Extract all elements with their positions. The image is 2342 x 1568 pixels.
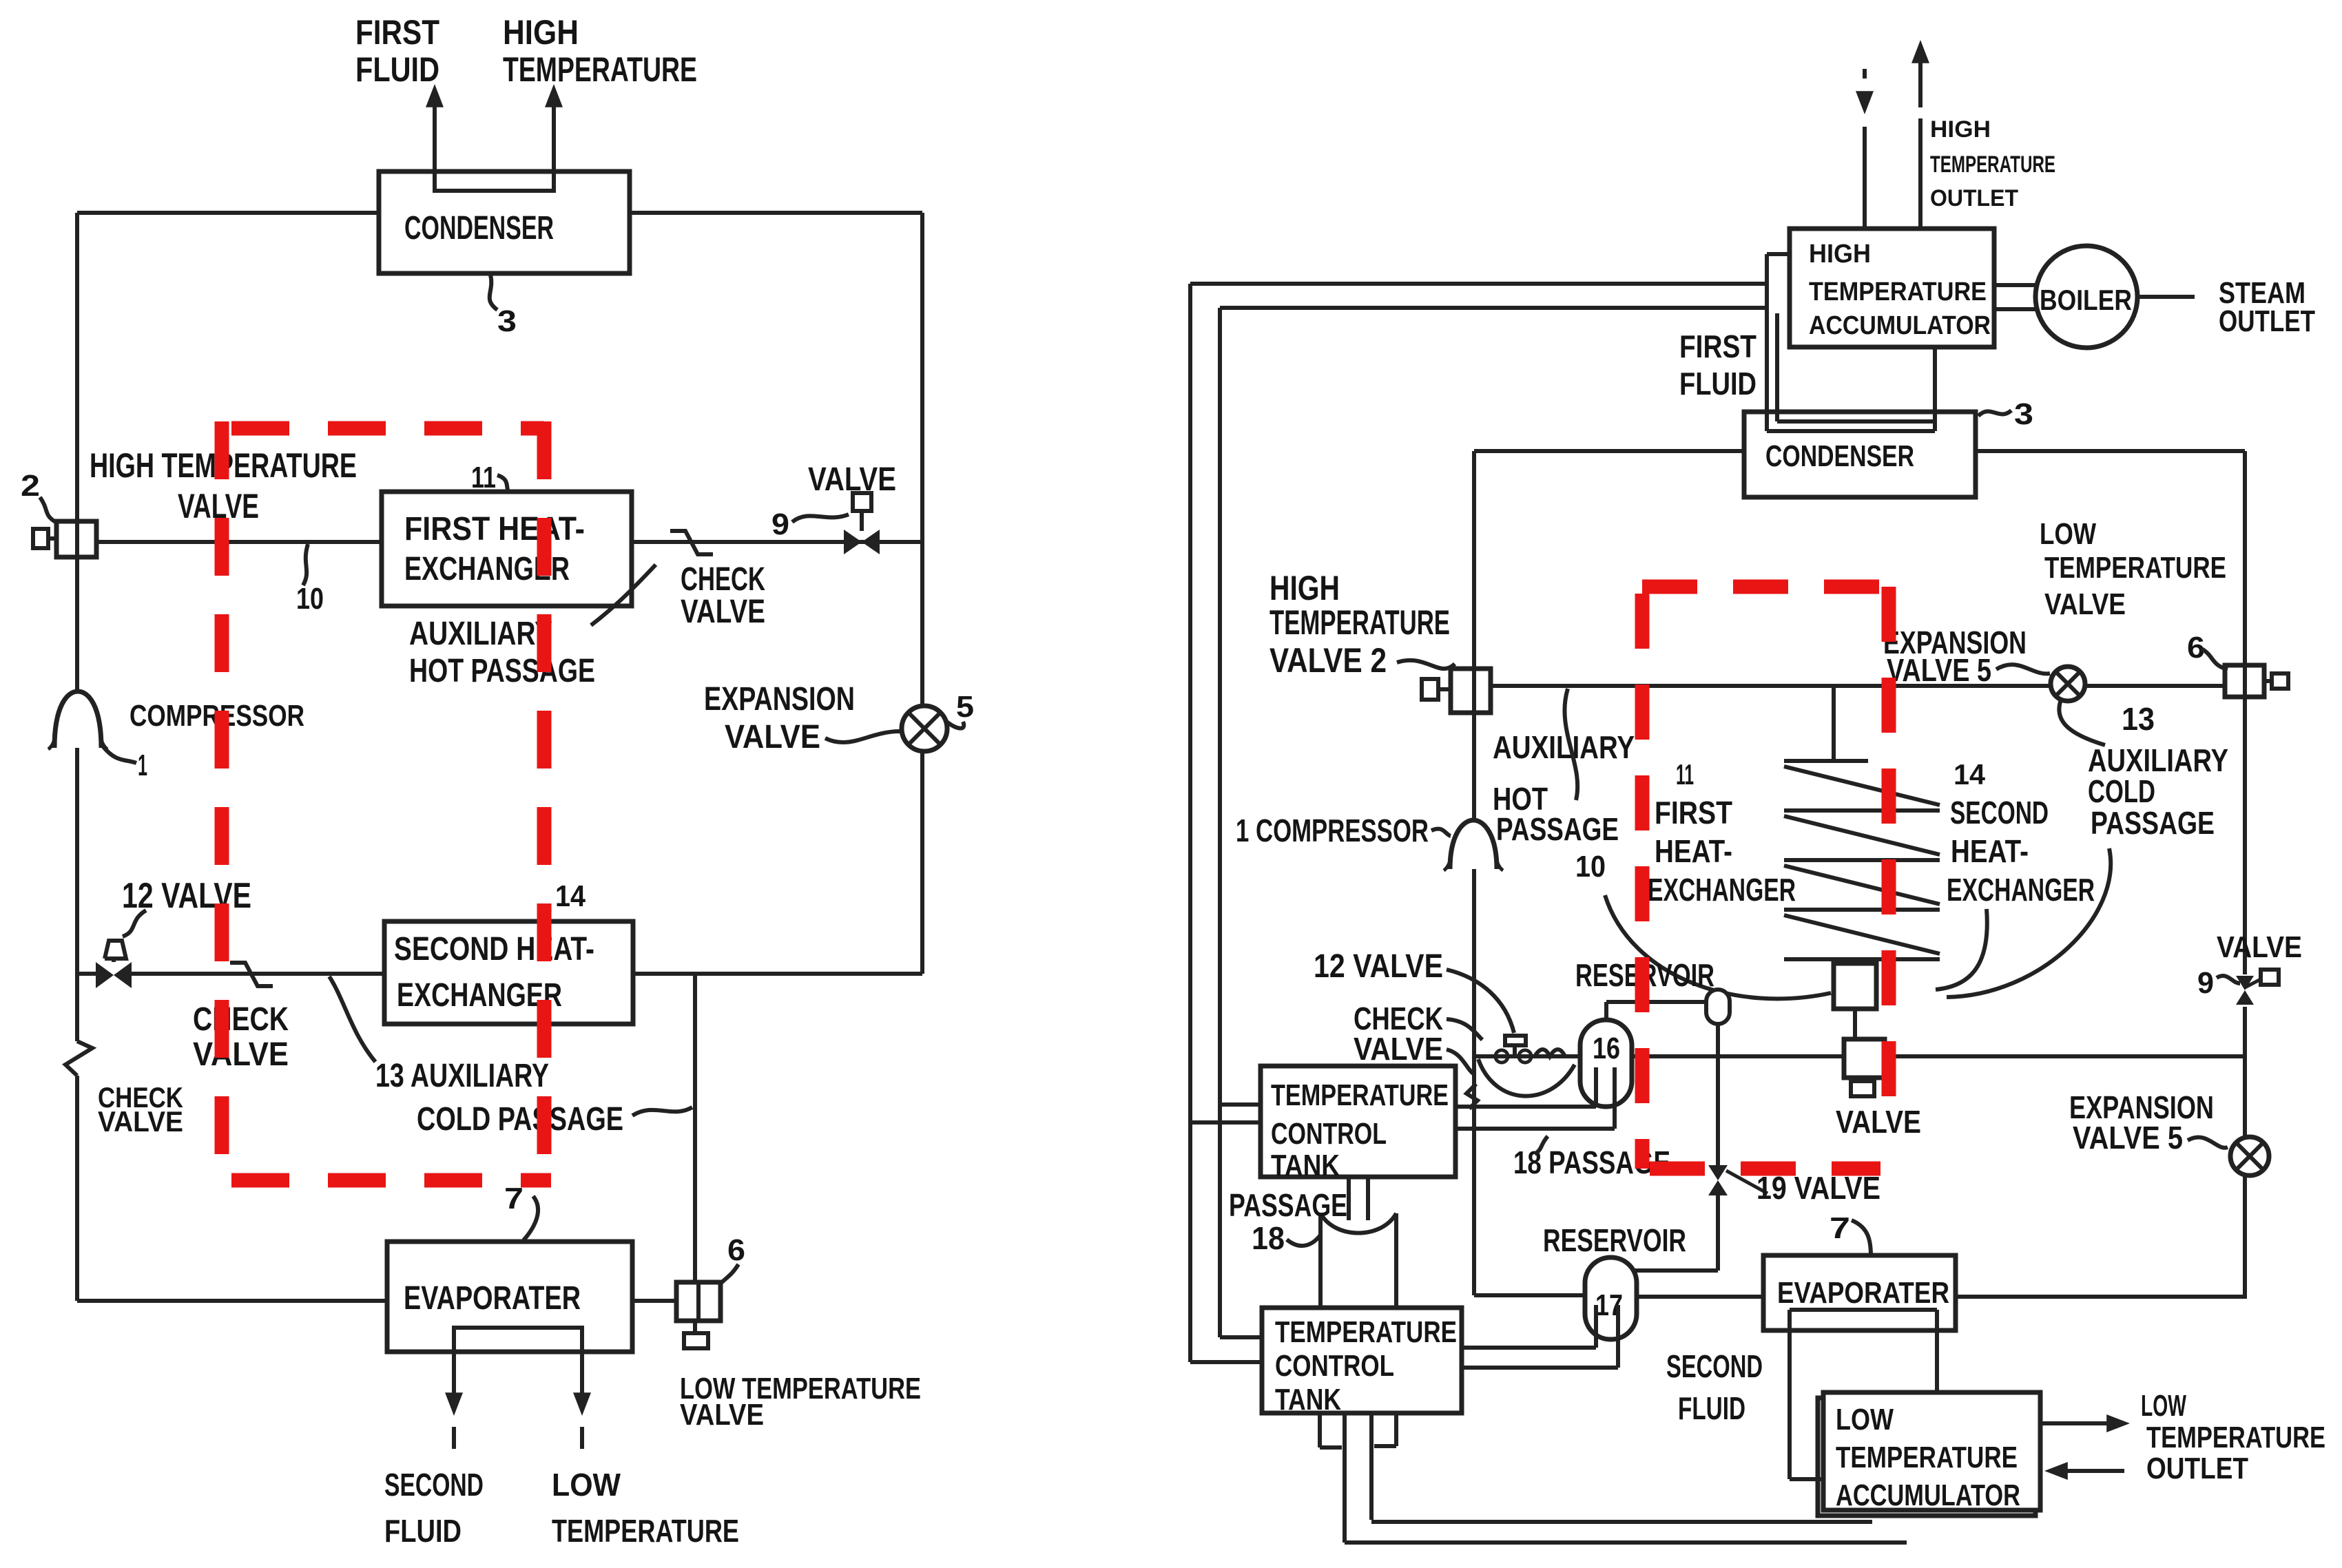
- leader squiggle valve 9: [2217, 976, 2240, 983]
- leader squiggle 18 passage: [1535, 1136, 1548, 1154]
- passage 18 bowl: [1320, 1213, 1396, 1233]
- valve lower stub box: [1851, 1081, 1874, 1096]
- svg-text:9: 9: [771, 508, 789, 541]
- svg-text:VALVE: VALVE: [725, 719, 820, 755]
- svg-text:11: 11: [471, 461, 496, 494]
- svg-text:LOW: LOW: [552, 1467, 621, 1503]
- red dashed region FIG.1 left edge: [215, 421, 229, 1180]
- svg-text:SECOND: SECOND: [384, 1467, 484, 1503]
- svg-text:HOT PASSAGE: HOT PASSAGE: [409, 653, 595, 689]
- leader squiggle compressor: [1431, 829, 1451, 836]
- svg-text:VALVE: VALVE: [98, 1105, 183, 1138]
- svg-text:TEMPERATURE: TEMPERATURE: [1271, 1078, 1449, 1112]
- heat-exchanger coil turns: [1784, 759, 1868, 763]
- wire valve 19 down to reservoir 17: [1716, 1195, 1720, 1271]
- low temperature outlet arrow in: [2055, 1469, 2124, 1473]
- leader line 19 valve: [1726, 1171, 1768, 1193]
- high temperature valve 2 body (fig2): [1451, 669, 1491, 713]
- svg-text:AUXILIARY: AUXILIARY: [1493, 729, 1635, 765]
- evaporater 7 box (fig2): [1763, 1255, 1956, 1330]
- leader squiggle valve5 bottom: [2188, 1137, 2228, 1147]
- expansion valve 5 symbol (top): [2051, 667, 2085, 701]
- wires into lower temperature control tank: [1220, 1335, 1262, 1339]
- condenser first-fluid inner passage: [435, 180, 554, 191]
- wire bulb down to valve 19: [1716, 1024, 1720, 1165]
- leader squiggle to 3: [490, 275, 497, 310]
- leader squiggle check valve upper: [1447, 1019, 1482, 1040]
- valve 9 stub box: [853, 493, 871, 511]
- check valve symbol (fig2): [1495, 1050, 1508, 1063]
- svg-text:10: 10: [296, 582, 324, 616]
- wires lower tank to reservoir 17: [1462, 1346, 1596, 1350]
- svg-text:14: 14: [1954, 758, 1986, 791]
- FIG.1 left vertical wire x=112: [75, 213, 79, 521]
- svg-text:12 VALVE: 12 VALVE: [122, 876, 251, 916]
- leader second heat-exchanger to coil: [1936, 909, 1987, 990]
- svg-text:CONTROL: CONTROL: [1275, 1349, 1394, 1383]
- 18 passage wires from upper tank: [1455, 1105, 1596, 1109]
- svg-text:LOW: LOW: [2141, 1389, 2186, 1423]
- svg-text:HIGH: HIGH: [503, 13, 579, 52]
- red dashed region FIG.2 left edge: [1635, 594, 1650, 1169]
- first fluid arrow up (left): [433, 103, 437, 191]
- svg-text:TEMPERATURE: TEMPERATURE: [1270, 603, 1450, 642]
- svg-text:COLD: COLD: [2088, 773, 2155, 809]
- valve 6 lower stub box: [684, 1333, 708, 1348]
- inner loop top wire y=655: [1474, 449, 1744, 453]
- passage 18 side wires: [1318, 1213, 1323, 1308]
- low temperature valve 6 body (fig2): [2225, 665, 2264, 697]
- valve 2 stub: [33, 529, 48, 548]
- svg-text:SECOND: SECOND: [1666, 1348, 1763, 1384]
- svg-text:FLUID: FLUID: [1679, 366, 1756, 401]
- reservoir 16 bottom prongs: [1594, 1067, 1598, 1107]
- leader squiggle to 10: [303, 544, 308, 585]
- FIG.1 outer loop wire: top header y=309: [77, 211, 379, 215]
- svg-text:ACCUMULATOR: ACCUMULATOR: [1836, 1478, 2020, 1512]
- leader squiggle 12 valve (fig2): [1447, 970, 1514, 1033]
- svg-text:6: 6: [727, 1233, 745, 1267]
- wires into upper temperature control tank: [1220, 1102, 1261, 1107]
- valve 12 plug: [105, 941, 126, 959]
- svg-text:TEMPERATURE: TEMPERATURE: [1275, 1315, 1457, 1349]
- first fluid down-tube to condenser: [1767, 252, 1790, 256]
- boiler wires: [1994, 283, 2037, 287]
- svg-text:2: 2: [21, 469, 40, 503]
- expansion valve 5 symbol: [902, 706, 947, 751]
- second fluid bottom wire lower: [1343, 1413, 1347, 1543]
- evaporater second-fluid inner passage: [454, 1328, 582, 1352]
- wire y=1414 second heat-exchanger line: [77, 972, 96, 976]
- leader first heat-exchanger to coil: [1605, 895, 1831, 999]
- leader squiggle check valve lower: [1447, 1049, 1474, 1074]
- svg-text:LOW: LOW: [1836, 1403, 1894, 1436]
- leader squiggle passage 10: [1564, 689, 1577, 800]
- svg-text:FLUID: FLUID: [355, 50, 439, 89]
- svg-text:PASSAGE: PASSAGE: [1496, 811, 1619, 847]
- check valve symbol on wire y=787: [670, 531, 713, 554]
- FIG.2 outer first-fluid wire lower: [1220, 306, 1767, 310]
- leader squiggle 2: [40, 497, 58, 523]
- svg-text:LOW: LOW: [2040, 517, 2096, 551]
- wire branch x=1009 down to low temperature valve 6: [693, 974, 697, 1282]
- leader auxiliary cold passage to coil: [1947, 848, 2111, 997]
- svg-text:TEMPERATURE: TEMPERATURE: [503, 50, 697, 89]
- red dashed region FIG.2 right edge: [1882, 587, 1896, 1129]
- svg-text:OUTLET: OUTLET: [1930, 185, 2018, 211]
- first heat-exchanger 11 box: [382, 492, 632, 606]
- svg-text:FLUID: FLUID: [1678, 1390, 1745, 1426]
- svg-text:16: 16: [1593, 1032, 1620, 1065]
- red dashed region FIG.2 bottom edge: [1650, 1162, 1880, 1176]
- svg-text:5: 5: [956, 690, 974, 724]
- red dashed region FIG.1 top edge: [231, 421, 544, 436]
- leader squiggle 3 (fig2): [1978, 410, 2011, 416]
- reservoir 17 bottom prongs: [1594, 1305, 1598, 1348]
- high temperature arrow up (right): [552, 103, 556, 191]
- valve 9 body (fig2): [2236, 976, 2254, 990]
- svg-text:CHECK: CHECK: [193, 1001, 289, 1038]
- valve 9 stub (fig2): [2261, 970, 2279, 985]
- svg-text:FIRST: FIRST: [1679, 328, 1756, 364]
- svg-text:PASSAGE: PASSAGE: [2091, 805, 2215, 841]
- compressor 1 bell (fig2): [1450, 820, 1497, 869]
- svg-text:11: 11: [1676, 758, 1694, 791]
- leader squiggle 5: [945, 720, 964, 729]
- high temperature valve 2 body: [56, 521, 96, 557]
- lower tank stem B: [1394, 1413, 1398, 1446]
- svg-text:EXCHANGER: EXCHANGER: [1947, 872, 2095, 908]
- auxiliary hot passage wire y=996: [1491, 684, 2225, 688]
- FIG.1 right vertical wire x=1339: [920, 213, 924, 974]
- svg-text:SECOND HEAT-: SECOND HEAT-: [394, 931, 594, 968]
- svg-text:AUXILIARY: AUXILIARY: [409, 616, 552, 652]
- svg-text:7: 7: [1830, 1211, 1850, 1245]
- svg-text:SECOND: SECOND: [1950, 795, 2049, 830]
- svg-text:TEMPERATURE: TEMPERATURE: [1930, 151, 2055, 178]
- expansion valve 5 symbol (bottom): [2230, 1137, 2269, 1175]
- svg-text:EXCHANGER: EXCHANGER: [1648, 872, 1796, 908]
- valve 6 stub (fig2): [2272, 673, 2288, 689]
- leader squiggle 6: [721, 1264, 738, 1284]
- leader squiggle 7 (fig2): [1852, 1220, 1871, 1256]
- valve (unlabeled) body: [1844, 1039, 1885, 1078]
- upper temperature control tank box: [1261, 1066, 1455, 1177]
- svg-text:VALVE: VALVE: [1836, 1104, 1921, 1140]
- svg-text:18: 18: [1252, 1220, 1285, 1256]
- red dashed region FIG.1 right edge: [537, 421, 552, 1180]
- high temperature outlet arrow: [1918, 118, 1923, 229]
- svg-text:EXPANSION: EXPANSION: [704, 681, 855, 718]
- svg-text:PASSAGE: PASSAGE: [1229, 1187, 1347, 1223]
- leader squiggle passage 18: [1287, 1234, 1321, 1246]
- wire coil to valve: [1853, 1009, 1857, 1039]
- compressor 1 bell: [54, 691, 101, 748]
- svg-text:CONDENSER: CONDENSER: [404, 210, 554, 247]
- evaporater second-fluid passage: [1790, 1308, 1937, 1312]
- reservoir bulb capsule: [1706, 990, 1730, 1024]
- svg-text:13: 13: [2122, 701, 2155, 737]
- wire y=787 heat-exchanger to right vertical: [632, 540, 922, 544]
- svg-text:RESERVOIR: RESERVOIR: [1543, 1222, 1686, 1258]
- svg-text:3: 3: [497, 304, 517, 338]
- passage 18 stems below upper tank: [1347, 1177, 1351, 1220]
- check valve symbol on wire y=1414: [230, 963, 273, 986]
- leader squiggle 13 (fig2): [2059, 700, 2105, 745]
- svg-text:7: 7: [504, 1182, 524, 1215]
- svg-text:VALVE: VALVE: [681, 594, 765, 630]
- svg-text:TANK: TANK: [1271, 1149, 1340, 1182]
- svg-text:VALVE: VALVE: [2044, 587, 2126, 621]
- check valve wire y=1534 left segment: [1474, 1054, 1583, 1058]
- low temperature outlet arrow out: [2040, 1421, 2120, 1425]
- condenser 3 box (fig2): [1744, 412, 1976, 497]
- lower temperature control tank box: [1262, 1308, 1462, 1413]
- leader squiggle 7: [524, 1196, 538, 1240]
- valve 19 body: [1708, 1165, 1728, 1180]
- svg-text:VALVE: VALVE: [1354, 1031, 1443, 1067]
- svg-text:CONDENSER: CONDENSER: [1765, 439, 1914, 473]
- leader squiggle 11: [497, 475, 508, 492]
- svg-text:CONTROL: CONTROL: [1271, 1117, 1387, 1151]
- svg-text:HIGH: HIGH: [1809, 240, 1871, 269]
- svg-text:FIRST HEAT-: FIRST HEAT-: [404, 511, 585, 547]
- svg-text:OUTLET: OUTLET: [2219, 304, 2315, 338]
- red dashed region FIG.1 bottom edge: [231, 1173, 551, 1188]
- low temperature accumulator box shadow: [1818, 1398, 2035, 1516]
- svg-text:13 AUXILIARY: 13 AUXILIARY: [375, 1058, 549, 1094]
- svg-text:EVAPORATER: EVAPORATER: [404, 1280, 581, 1317]
- inner loop left vertical x=2140: [1472, 451, 1476, 669]
- valve 2 stub (fig2): [1422, 679, 1438, 700]
- svg-text:TEMPERATURE: TEMPERATURE: [1809, 278, 1987, 306]
- svg-text:VALVE 5: VALVE 5: [1887, 652, 1991, 688]
- valve 9 body: [844, 530, 862, 554]
- svg-text:HEAT-: HEAT-: [1655, 833, 1732, 869]
- svg-text:EVAPORATER: EVAPORATER: [1777, 1276, 1949, 1310]
- svg-text:TEMPERATURE: TEMPERATURE: [2146, 1421, 2325, 1454]
- svg-text:1 COMPRESSOR: 1 COMPRESSOR: [1236, 813, 1429, 848]
- second fluid bottom wire upper: [1369, 1413, 1374, 1520]
- leader squiggle 13: [329, 976, 375, 1062]
- second fluid arrow down (left): [452, 1352, 456, 1397]
- condenser 3 box: [379, 171, 630, 273]
- svg-text:TEMPERATURE: TEMPERATURE: [552, 1513, 739, 1549]
- wire y=787 valve2 to first heat-exchanger: [96, 540, 382, 544]
- right vertical wire x=3259: [2243, 451, 2247, 665]
- svg-text:12 VALVE: 12 VALVE: [1314, 948, 1443, 985]
- svg-text:VALVE 2: VALVE 2: [1270, 641, 1387, 680]
- reservoir 16 capsule: [1580, 1020, 1632, 1107]
- second heat-exchanger 14 box: [384, 921, 633, 1024]
- leader squiggle 9: [792, 514, 849, 522]
- svg-text:FLUID: FLUID: [384, 1513, 462, 1549]
- leader squiggle cold passage: [632, 1107, 692, 1116]
- leader squiggle expansion valve: [825, 731, 900, 742]
- FIG.2 outer first-fluid wire upper: [1190, 282, 1767, 286]
- wire reservoir 17 to evaporater: [1637, 1295, 1763, 1299]
- leader auxiliary hot passage: [591, 565, 656, 625]
- leader squiggle valve5 top: [1996, 665, 2050, 673]
- leader squiggle valve 2: [1397, 660, 1455, 669]
- svg-text:TEMPERATURE: TEMPERATURE: [2044, 551, 2226, 585]
- svg-text:1: 1: [138, 749, 147, 782]
- low temperature valve 6 body: [676, 1282, 721, 1321]
- heat-exchanger coil entry wire: [1832, 686, 1836, 761]
- svg-text:HIGH: HIGH: [1930, 116, 1991, 143]
- svg-text:ACCUMULATOR: ACCUMULATOR: [1809, 311, 1991, 340]
- svg-text:CHECK: CHECK: [681, 561, 765, 598]
- check valve Z symbol on left vertical: [65, 1041, 92, 1076]
- leader squiggle 14: [537, 909, 551, 923]
- boiler circle: [2035, 246, 2137, 348]
- svg-text:3: 3: [2014, 397, 2033, 431]
- valve 12 body: [96, 962, 114, 988]
- low temperature accumulator box: [1823, 1392, 2040, 1510]
- check valve under-curve: [1478, 1059, 1575, 1096]
- FIG.1 bottom wire y=1889: [77, 1299, 387, 1303]
- svg-text:10: 10: [1575, 850, 1606, 884]
- lower tank stem A: [1318, 1413, 1322, 1447]
- svg-text:HIGH: HIGH: [1270, 569, 1340, 607]
- svg-text:9: 9: [2197, 966, 2214, 1000]
- svg-text:FIRST: FIRST: [355, 13, 439, 52]
- leader squiggle 1: [102, 745, 136, 763]
- low temperature arrow down (right): [580, 1352, 584, 1397]
- leader squiggle 12 valve: [123, 910, 146, 937]
- svg-text:OUTLET: OUTLET: [2146, 1452, 2248, 1485]
- svg-text:HEAT-: HEAT-: [1951, 833, 2029, 869]
- svg-text:VALVE: VALVE: [2217, 930, 2302, 964]
- svg-text:TEMPERATURE: TEMPERATURE: [1836, 1441, 2018, 1474]
- reservoir 17 capsule: [1585, 1257, 1637, 1339]
- svg-text:VALVE: VALVE: [680, 1398, 764, 1432]
- svg-text:TANK: TANK: [1275, 1383, 1341, 1417]
- leader squiggle 6 (fig2): [2201, 649, 2228, 669]
- svg-text:VALVE: VALVE: [808, 461, 896, 498]
- valve 12 tap symbol (fig2): [1513, 1044, 1517, 1056]
- wire evaporater right to expansion valve: [1956, 1295, 2247, 1299]
- wire x=2140 corner to reservoir 17: [1474, 1293, 1585, 1297]
- svg-text:VALVE 5: VALVE 5: [2073, 1120, 2183, 1156]
- svg-text:14: 14: [555, 879, 585, 913]
- svg-text:FIRST: FIRST: [1655, 795, 1732, 830]
- svg-text:COLD PASSAGE: COLD PASSAGE: [417, 1101, 623, 1138]
- first fluid inlet arrow (dashed): [1863, 127, 1867, 229]
- high temperature accumulator box: [1790, 229, 1994, 347]
- svg-text:VALVE: VALVE: [193, 1036, 289, 1073]
- check valve curve hook: [1467, 1084, 1478, 1109]
- svg-text:BOILER: BOILER: [2040, 284, 2132, 316]
- red dashed region FIG.2 top edge: [1642, 580, 1889, 594]
- main wire y=1534 reservoir 16 to right vertical: [1632, 1054, 1844, 1058]
- evaporater 7 box: [387, 1242, 632, 1352]
- wire bulb to reservoir 16 top: [1606, 1000, 1706, 1004]
- coil bottom header box: [1834, 963, 1876, 1009]
